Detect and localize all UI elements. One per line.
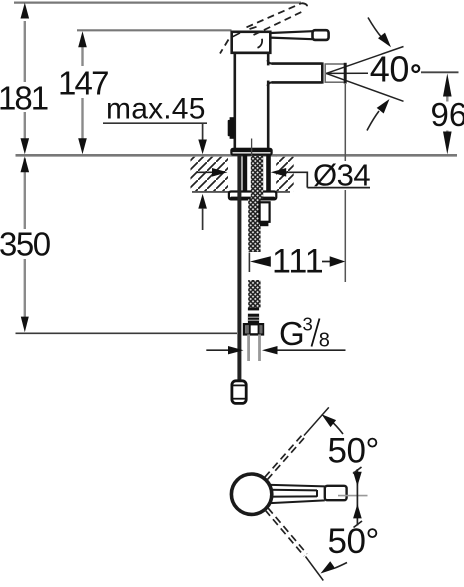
threaded shank right wall xyxy=(266,155,271,192)
aerator right edge (thick, extension origin) xyxy=(344,63,347,84)
reference line 147 (top of body) xyxy=(77,29,232,31)
top reference line (max lever height) xyxy=(14,1,301,3)
swivel upper extension line xyxy=(304,407,329,435)
grip width dimension line xyxy=(356,469,358,526)
dimension 181 line xyxy=(24,21,26,139)
svg-text:G: G xyxy=(279,315,305,352)
head top-left chamfer xyxy=(233,33,241,37)
40 degree upper leader arrow xyxy=(368,18,383,39)
hose end crimp connector xyxy=(248,308,259,311)
dimension 96 line xyxy=(446,95,448,138)
swivel lower leader arrow xyxy=(335,563,347,569)
svg-text:3: 3 xyxy=(303,314,313,335)
grip width dim arrows xyxy=(353,472,362,487)
flexible hose in shank (braided) xyxy=(251,156,263,199)
top view lever arm lines xyxy=(258,485,325,504)
flexible hose below nut xyxy=(248,199,260,252)
cartridge head xyxy=(232,32,271,53)
grip centerline xyxy=(338,495,368,497)
swivel range lower (dashed) xyxy=(265,508,307,556)
dimension 181 top arrow xyxy=(21,3,30,19)
lever arm (horizontal) xyxy=(271,31,313,39)
swivel range upper (dashed) xyxy=(265,434,306,479)
svg-text:50°: 50° xyxy=(328,522,379,561)
top view body circle xyxy=(231,474,271,514)
svg-text:111: 111 xyxy=(272,243,324,281)
dimension 147 top arrow xyxy=(78,31,87,47)
spout xyxy=(272,62,323,83)
faucet body column xyxy=(235,53,268,149)
countertop hatch right patch xyxy=(276,157,294,191)
lever grip xyxy=(313,30,329,40)
pop-up rod knob on body left xyxy=(228,120,235,136)
dimension 96 top arrow xyxy=(443,73,452,96)
spout fillets xyxy=(267,60,272,86)
max.45 underline leader xyxy=(103,123,207,140)
aerator box xyxy=(325,64,345,82)
svg-text:max.45: max.45 xyxy=(106,93,206,126)
swivel lower extension line xyxy=(306,557,324,581)
countertop line xyxy=(16,154,458,157)
dimension 181 bottom arrow xyxy=(21,138,30,154)
svg-text:350: 350 xyxy=(0,226,51,263)
svg-text:50°: 50° xyxy=(328,432,379,471)
countertop hatch left patch xyxy=(191,157,229,191)
base flange xyxy=(231,149,271,155)
max.45 lower arrow tail xyxy=(202,208,204,230)
spout junction opening (erase body edge) xyxy=(265,65,272,80)
dimension Ø34 right arrow and leader xyxy=(286,172,370,187)
max.45 arrow down to countertop xyxy=(198,140,207,155)
G3/8 nipple tube xyxy=(247,334,250,361)
dimension 96 bottom arrow xyxy=(443,132,452,155)
slab bottom line xyxy=(192,191,290,193)
svg-text:96: 96 xyxy=(431,96,464,133)
dimension 111 extension tick at hose xyxy=(248,253,250,273)
side block foot xyxy=(260,222,268,226)
threaded shank left wall xyxy=(243,155,248,192)
flexible hose lower segment xyxy=(248,280,260,308)
svg-text:8: 8 xyxy=(319,330,330,352)
40 degree rays from spout vertex xyxy=(326,47,403,102)
raised lever (dashed) xyxy=(220,3,307,53)
dimension 111 right arrow xyxy=(322,261,331,263)
bottom reference line (hose length 350) xyxy=(16,332,238,334)
dimension 350 line xyxy=(24,159,26,318)
swivel upper leader arrow xyxy=(330,420,343,434)
pull rod knob xyxy=(232,381,246,404)
head interior curve xyxy=(258,39,263,48)
mounting nut under slab xyxy=(229,192,276,200)
G3/8 left arrow xyxy=(206,349,232,351)
side block (hose connection) xyxy=(260,202,270,222)
raised lever top dash near head xyxy=(250,27,257,29)
svg-text:40: 40 xyxy=(370,49,409,90)
top view lever grip xyxy=(325,486,347,500)
G3/8 right arrow xyxy=(273,349,346,351)
spout tip extension line (down to 111 dim) xyxy=(344,84,346,282)
dimension 111 left arrow xyxy=(250,256,271,266)
dimension 350 bottom arrow xyxy=(21,317,29,333)
svg-text:181: 181 xyxy=(0,80,48,117)
hex nut G3/8 xyxy=(244,324,263,334)
centerline at base xyxy=(251,139,253,158)
svg-text:Ø34: Ø34 xyxy=(313,158,370,193)
96 top reference line xyxy=(421,71,459,73)
max.45 arrow up to slab bottom xyxy=(198,194,207,209)
40 degree lower leader arrow xyxy=(367,111,379,131)
dimension Ø34 left arrow xyxy=(197,171,217,173)
svg-text:147: 147 xyxy=(58,65,108,102)
dimension 147 bottom arrow xyxy=(78,138,87,154)
dimension 350 top arrow xyxy=(21,156,30,172)
dimension 147 line xyxy=(81,47,83,139)
pop-up rod below counter xyxy=(237,155,241,381)
grip dim end ticks xyxy=(353,467,362,474)
